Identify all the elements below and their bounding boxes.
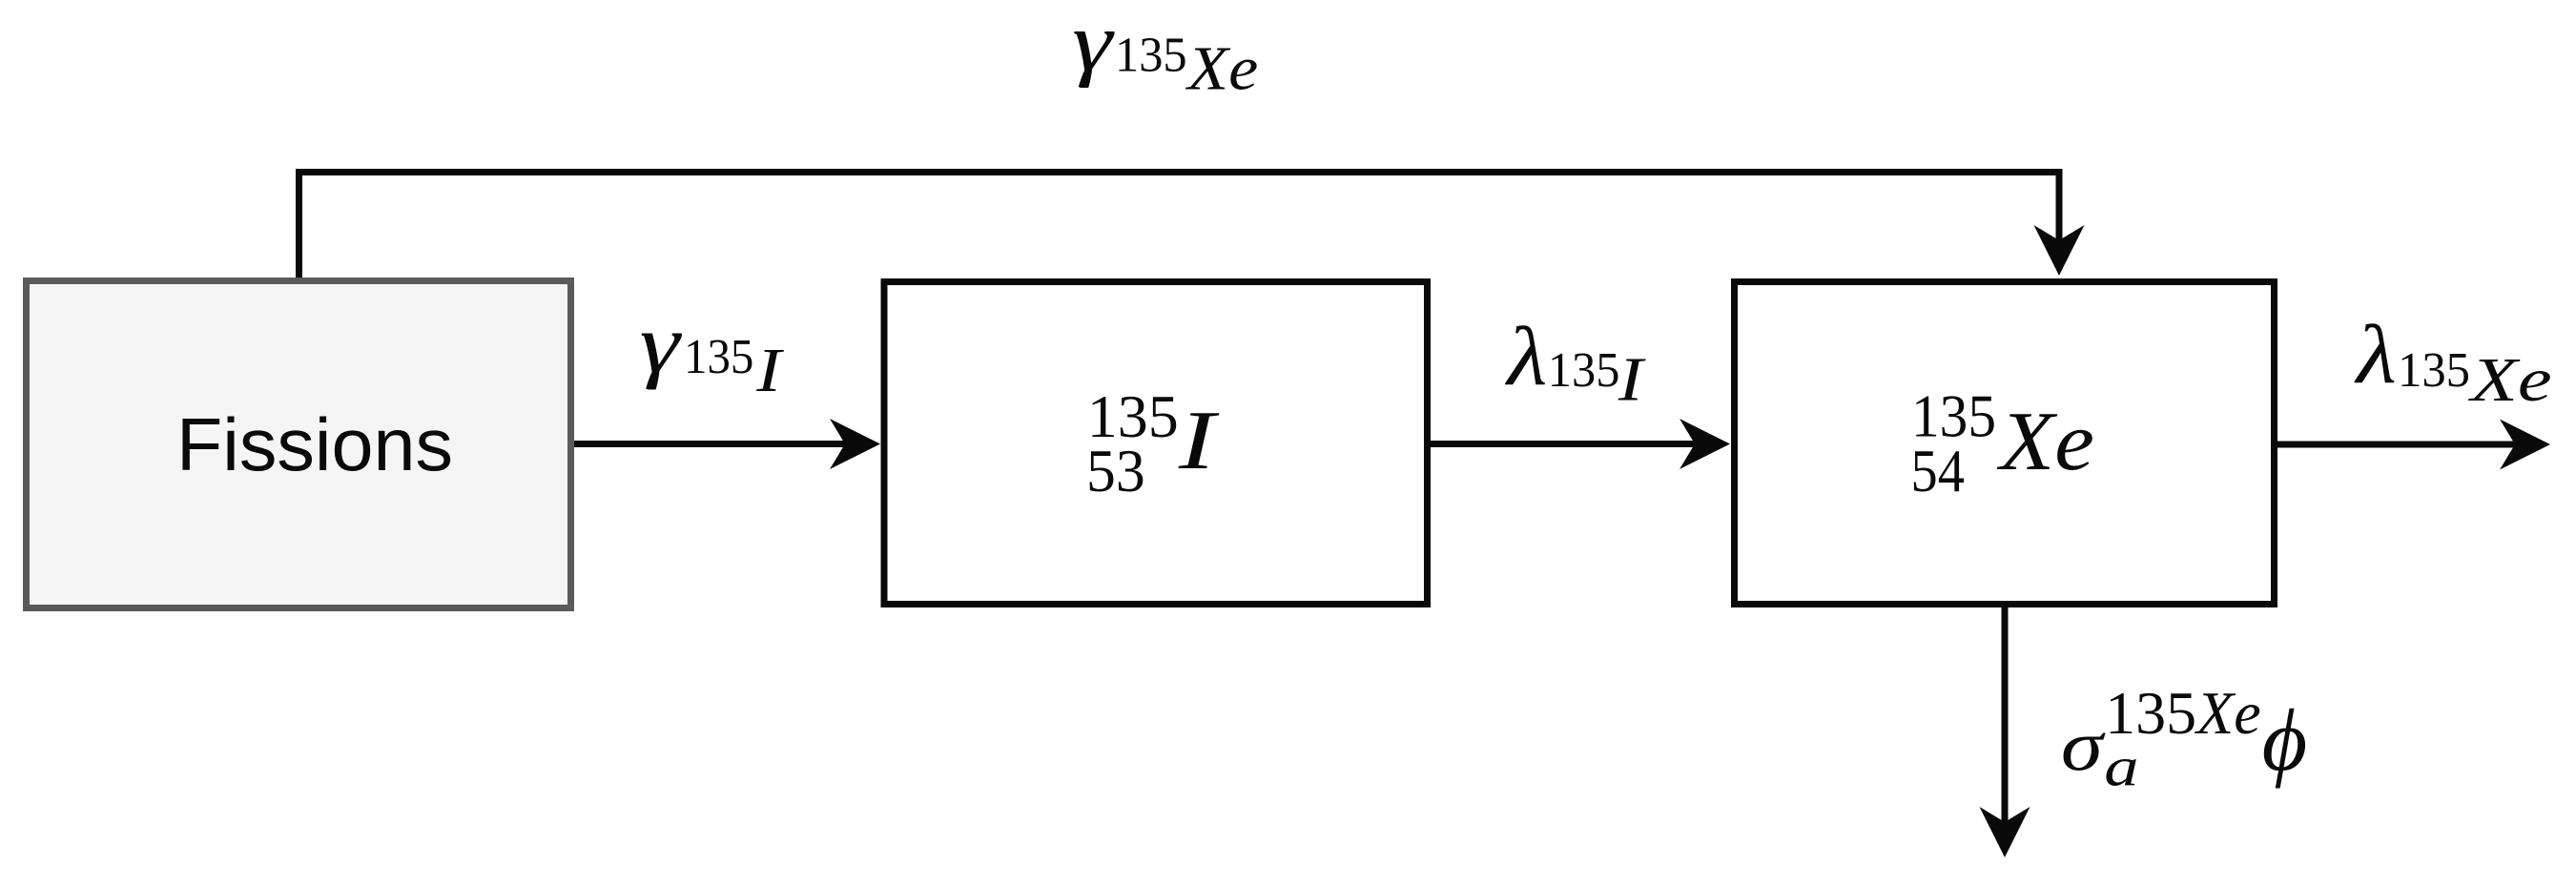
svg-text:λ: λ [2354, 309, 2397, 401]
svg-text:135: 135 [2398, 343, 2470, 398]
arrow Fissions to I-135 [571, 419, 880, 469]
label Fissions [176, 402, 453, 486]
arrow Xe-135 absorption down [1980, 606, 2030, 857]
label lambda-135I [1504, 311, 1646, 414]
svg-text:σ: σ [2061, 707, 2107, 786]
svg-text:135: 135 [1548, 343, 1620, 398]
label gamma-135Xe top [1072, 0, 1258, 104]
svg-text:λ: λ [1504, 311, 1547, 403]
svg-text:135: 135 [684, 330, 753, 384]
label lambda-135Xe [2354, 309, 2552, 415]
svg-text:Fissions: Fissions [176, 402, 453, 486]
svg-text:54: 54 [1911, 437, 1965, 504]
svg-text:γ: γ [1072, 0, 1115, 90]
label 135 54 Xe inside box [1911, 381, 2094, 504]
box Xe-135 [1735, 282, 2275, 605]
svg-text:ϕ: ϕ [2262, 691, 2308, 789]
svg-text:Xe: Xe [1185, 34, 1258, 104]
label sigma-a 135Xe phi [2061, 679, 2307, 798]
svg-text:Xe: Xe [1997, 396, 2094, 488]
arrow I-135 to Xe-135 [1428, 419, 1730, 469]
svg-text:135Xe: 135Xe [2105, 679, 2261, 747]
svg-text:Xe: Xe [2467, 345, 2552, 415]
label gamma-135I [640, 298, 785, 405]
svg-text:I: I [755, 336, 784, 405]
box Fissions [27, 281, 571, 608]
arrow Xe-135 decay out right [2276, 420, 2550, 470]
svg-text:I: I [1618, 345, 1646, 415]
wire feedback from Fissions top to Xe box top [299, 173, 2085, 280]
svg-text:γ: γ [640, 298, 683, 391]
svg-text:53: 53 [1086, 437, 1145, 504]
svg-text:135: 135 [1115, 29, 1187, 83]
label 135 53 I inside box [1086, 382, 1220, 504]
svg-text:I: I [1178, 395, 1220, 487]
box I-135 [884, 282, 1428, 605]
